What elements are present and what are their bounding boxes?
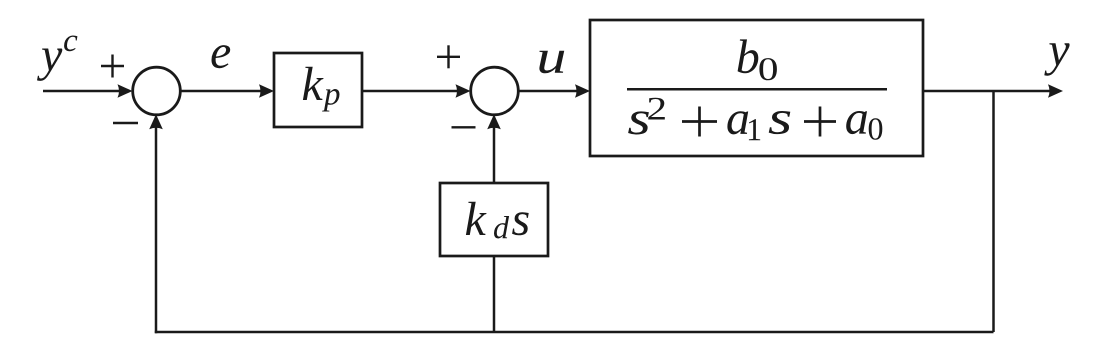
arrowhead up into sum1 [149,114,163,129]
wire Kd block to sum2 [493,126,496,183]
denominator sub 1 [749,119,760,140]
block Kd [440,183,548,256]
label yc : y [37,49,62,81]
arrowhead into Kp [259,84,274,98]
wire plant output to arrow y [923,90,1052,93]
denominator s [628,111,649,134]
label yc : sup c [64,36,77,52]
label e [212,45,231,68]
label u [539,51,564,74]
wire feedback bottom [155,331,994,334]
block Kp [274,53,362,127]
arrowhead up into sum2 [487,114,501,129]
arrowhead output y [1048,84,1063,98]
summing junction sum1 [133,67,181,115]
wire feedback left riser to sum1 [155,126,158,333]
plus sign sum1 [101,65,124,67]
wire Kp to sum2 [362,90,459,93]
wire feedback drop right [992,91,995,332]
block plant [590,20,923,156]
label kp : k [303,67,324,100]
denominator sup 2 [648,98,665,120]
arrowhead into sum1 [118,84,133,98]
plus sign in denominator (2nd) [804,107,836,137]
denominator a (2nd) [846,111,867,134]
arrowhead into sum2 [456,84,471,98]
wire sum2 to plant [518,90,579,93]
summing junction sum2 [471,67,519,115]
wire bottom to Kd block [493,256,496,332]
numerator sub 0 [759,58,777,80]
plus sign sum2 [437,56,460,58]
label kd : sub d [494,216,509,239]
denominator sub 0 [869,118,883,140]
minus sign sum1 [113,122,138,124]
label kd : s [512,212,529,235]
wire input yc to sum1 [43,90,121,93]
minus sign sum2 [452,126,476,128]
wire sum1 to Kp [180,90,263,93]
numerator b [738,39,759,73]
label y output [1044,43,1069,75]
denominator s (2nd) [769,111,791,134]
arrowhead into plant [575,84,590,98]
label kp : sub p [322,89,339,112]
plant fraction bar [627,88,887,91]
label kd : k [466,202,487,235]
denominator a [727,111,748,134]
plus sign in denominator (1st) [682,107,717,137]
